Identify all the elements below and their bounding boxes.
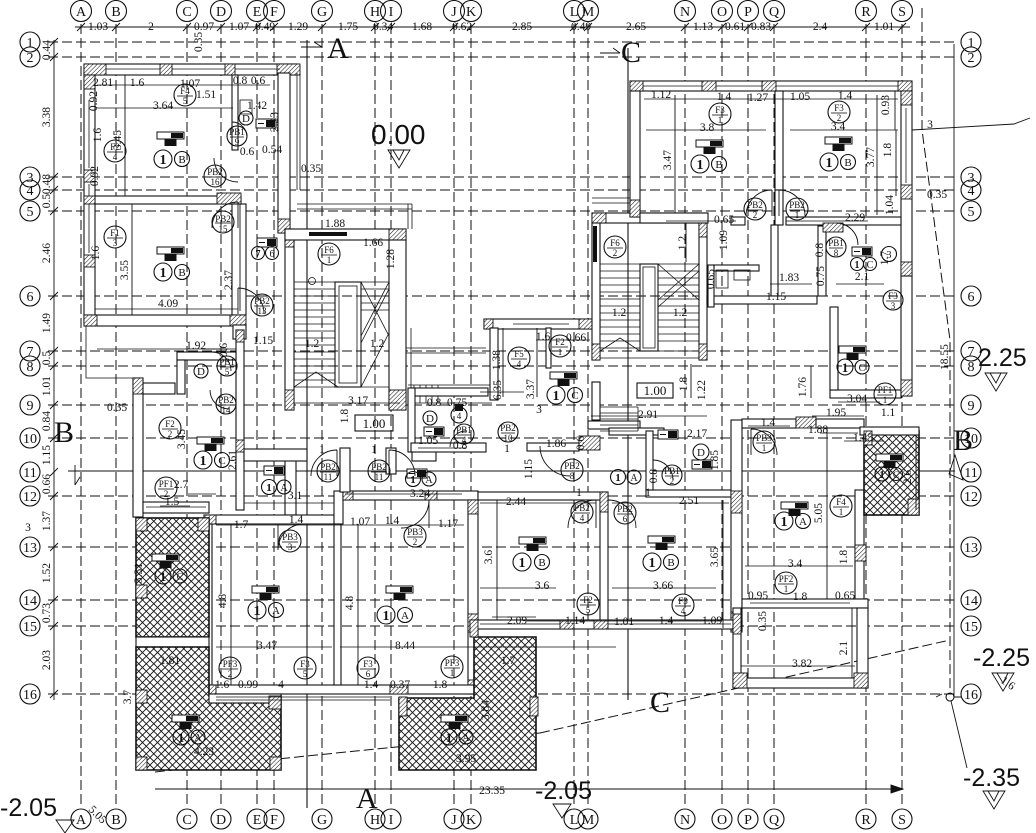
top wall band <box>84 64 297 75</box>
svg-text:3.64: 3.64 <box>153 100 173 112</box>
label circle F4/5 <box>174 84 196 106</box>
bed right block left <box>696 140 723 154</box>
svg-text:13: 13 <box>23 541 37 556</box>
svg-text:1: 1 <box>178 730 185 745</box>
svg-text:1.01: 1.01 <box>874 21 894 33</box>
svg-text:1: 1 <box>446 730 453 745</box>
svg-text:4: 4 <box>27 184 34 199</box>
bed bottom-left left room <box>252 586 279 600</box>
svg-text:2.03: 2.03 <box>41 650 53 670</box>
svg-text:4: 4 <box>278 679 284 691</box>
svg-text:F1: F1 <box>110 228 120 238</box>
room label A B C D E F G H I J K L M N O P Q R S <box>71 1 913 22</box>
svg-text:O: O <box>717 5 727 20</box>
svg-text:1.45: 1.45 <box>853 432 873 444</box>
svg-text:1.2: 1.2 <box>677 236 689 251</box>
svg-text:1.03: 1.03 <box>88 21 108 33</box>
svg-text:1.1: 1.1 <box>881 407 896 419</box>
svg-text:C: C <box>218 455 225 467</box>
svg-text:3.7: 3.7 <box>122 690 134 705</box>
svg-text:3.1: 3.1 <box>288 490 303 502</box>
section A line <box>301 32 378 815</box>
svg-text:1: 1 <box>519 556 526 571</box>
svg-text:2.46: 2.46 <box>41 243 53 263</box>
label circle PB3/2 <box>404 525 426 547</box>
svg-text:2.09: 2.09 <box>507 615 527 627</box>
svg-text:2.1: 2.1 <box>838 641 850 656</box>
bed middle apt <box>550 372 577 386</box>
room label 1 A <box>775 512 811 530</box>
svg-text:1.15: 1.15 <box>523 459 535 479</box>
svg-text:E: E <box>253 813 262 828</box>
label circle PB1/8 <box>826 237 846 258</box>
svg-text:D: D <box>697 447 705 459</box>
bed bottom-middle left <box>519 537 546 551</box>
svg-text:4.23: 4.23 <box>194 746 214 758</box>
svg-text:1: 1 <box>266 482 272 494</box>
svg-text:1.15: 1.15 <box>766 291 786 303</box>
svg-text:3.77: 3.77 <box>865 147 877 167</box>
label circle PB1/5 <box>217 356 237 377</box>
right wall <box>731 420 742 632</box>
left wall <box>630 91 640 217</box>
svg-text:C: C <box>177 572 184 583</box>
svg-text:0.97: 0.97 <box>194 21 214 33</box>
svg-text:2.61: 2.61 <box>227 450 239 470</box>
svg-text:2: 2 <box>228 669 233 679</box>
label circle F6/2 <box>604 236 626 258</box>
svg-text:PB2: PB2 <box>207 167 223 177</box>
svg-text:1.15: 1.15 <box>41 445 53 465</box>
svg-text:0.6: 0.6 <box>240 146 255 158</box>
svg-text:5: 5 <box>968 205 975 220</box>
svg-text:PF3: PF3 <box>223 659 238 669</box>
svg-text:15: 15 <box>219 224 229 234</box>
svg-text:PF1: PF1 <box>159 479 174 489</box>
left wall (terrace shared) <box>204 524 212 694</box>
svg-text:P: P <box>744 813 752 828</box>
boundary dashed right <box>155 8 950 772</box>
svg-text:B: B <box>178 267 185 279</box>
bottom wall of top-left apartment <box>84 315 245 326</box>
window lines below bottom-left apartment wall <box>216 696 390 698</box>
svg-text:1.2: 1.2 <box>305 338 320 350</box>
svg-text:0.54: 0.54 <box>262 144 282 156</box>
svg-text:PB2: PB2 <box>500 423 516 433</box>
bed PF1 room <box>197 437 224 451</box>
svg-text:11: 11 <box>23 466 36 481</box>
svg-text:A: A <box>194 733 202 744</box>
svg-text:F3: F3 <box>888 291 898 301</box>
svg-text:0.35: 0.35 <box>301 163 321 175</box>
svg-text:3.4: 3.4 <box>788 558 803 570</box>
label circle F3/1 <box>709 103 731 125</box>
svg-text:S: S <box>898 5 906 20</box>
bed terrace A <box>152 554 179 568</box>
svg-text:0.6: 0.6 <box>575 436 587 451</box>
section C line <box>600 36 670 719</box>
svg-text:L: L <box>570 5 579 20</box>
left wall band <box>84 75 95 321</box>
svg-text:B: B <box>178 154 185 166</box>
svg-text:13: 13 <box>258 306 268 316</box>
corridor right wall of left block lower <box>236 330 244 510</box>
svg-text:1.00: 1.00 <box>644 383 667 398</box>
svg-text:4: 4 <box>113 152 118 162</box>
svg-text:2: 2 <box>613 248 618 258</box>
svg-text:1: 1 <box>795 210 800 220</box>
label circle PB1/2 <box>662 465 682 486</box>
svg-text:2: 2 <box>27 51 34 66</box>
label circle F5/4 <box>508 347 530 369</box>
room label 7 6 <box>252 247 279 261</box>
bed F4 room <box>781 502 808 516</box>
svg-text:C: C <box>182 5 191 20</box>
svg-text:PB1: PB1 <box>828 238 844 248</box>
PB1/8 door <box>836 223 858 245</box>
svg-text:-2.35: -2.35 <box>963 764 1020 792</box>
svg-text:2: 2 <box>148 21 154 33</box>
svg-text:2.25: 2.25 <box>978 344 1027 372</box>
svg-text:1: 1 <box>649 556 656 571</box>
left wall <box>592 223 600 360</box>
svg-text:2.6: 2.6 <box>902 470 914 485</box>
svg-text:1.83: 1.83 <box>779 272 799 284</box>
right wall of left block <box>278 73 290 233</box>
svg-text:F: F <box>270 5 278 20</box>
svg-text:0.99: 0.99 <box>238 679 258 691</box>
svg-text:16: 16 <box>211 177 221 187</box>
bottom landing V <box>294 372 338 387</box>
svg-text:4.8: 4.8 <box>217 594 229 609</box>
svg-text:3.55: 3.55 <box>119 260 131 280</box>
svg-text:L: L <box>570 813 579 828</box>
svg-text:1.07: 1.07 <box>229 21 249 33</box>
svg-text:6.35: 6.35 <box>492 380 504 400</box>
svg-text:1.15: 1.15 <box>253 335 273 347</box>
svg-text:0.61: 0.61 <box>725 21 745 33</box>
svg-text:D: D <box>216 813 226 828</box>
left dimension line <box>50 38 58 700</box>
grid vertical dashed lines <box>81 24 902 808</box>
svg-text:0.93: 0.93 <box>880 95 892 115</box>
svg-text:3.38: 3.38 <box>41 107 53 127</box>
label circle F3/5 <box>294 657 316 679</box>
top wall <box>484 319 600 329</box>
bed terrace 2 <box>441 715 468 729</box>
svg-text:F6: F6 <box>324 245 334 255</box>
svg-text:2.51: 2.51 <box>679 495 699 507</box>
svg-text:PB1: PB1 <box>456 425 472 435</box>
svg-text:3.47: 3.47 <box>257 640 277 652</box>
bed bottom-middle right <box>648 536 675 550</box>
svg-text:1.8: 1.8 <box>433 679 448 691</box>
svg-text:F5: F5 <box>514 349 524 359</box>
label circle PB2/4 <box>571 501 593 523</box>
svg-text:1: 1 <box>855 260 860 271</box>
svg-text:F6: F6 <box>610 238 620 248</box>
svg-text:7: 7 <box>256 249 261 260</box>
wall y396 under 1C room <box>830 390 901 398</box>
svg-text:1.17: 1.17 <box>438 518 458 530</box>
svg-text:7: 7 <box>968 345 975 360</box>
svg-text:14: 14 <box>222 405 232 415</box>
svg-text:PB3: PB3 <box>282 532 298 542</box>
bottom wall + entrance steps below <box>592 382 600 420</box>
top wall of F4 room <box>742 419 796 428</box>
svg-text:1.66: 1.66 <box>363 237 383 249</box>
vertical wall x781 <box>771 225 778 296</box>
svg-text:PB3: PB3 <box>407 527 423 537</box>
svg-text:3.04: 3.04 <box>847 393 867 405</box>
label circle PB1/9 <box>227 126 247 147</box>
entrance steps right of stair1 <box>408 385 492 403</box>
svg-text:1: 1 <box>842 360 849 375</box>
svg-text:1.8: 1.8 <box>882 143 894 158</box>
svg-text:1.14: 1.14 <box>565 615 585 627</box>
svg-text:3: 3 <box>536 404 542 416</box>
label circle PB2/13 <box>251 294 273 316</box>
svg-text:1.4: 1.4 <box>838 90 853 102</box>
svg-text:8: 8 <box>570 471 575 481</box>
label circle PB2/16 <box>204 165 226 187</box>
svg-text:1.01: 1.01 <box>614 616 634 628</box>
top wall left part <box>204 515 334 524</box>
svg-text:B: B <box>953 424 973 457</box>
left wall <box>490 328 498 400</box>
label circle F2/2 <box>159 417 181 439</box>
svg-text:0.49: 0.49 <box>571 21 591 33</box>
label circle PF3/2 <box>219 657 241 679</box>
svg-text:3: 3 <box>288 542 293 552</box>
svg-text:3.45: 3.45 <box>112 130 124 150</box>
bath fixtures left block <box>240 100 252 114</box>
room label 1 B <box>820 153 856 171</box>
corridor door walls <box>340 448 350 492</box>
svg-text:5: 5 <box>586 605 591 615</box>
label circle PB2/6 <box>614 502 636 524</box>
svg-text:1: 1 <box>839 507 844 517</box>
PB3/1 door F4 <box>751 429 777 455</box>
svg-text:1.49: 1.49 <box>41 313 53 333</box>
room label 1 C <box>194 451 230 469</box>
svg-text:1: 1 <box>615 472 621 484</box>
svg-text:S: S <box>898 813 906 828</box>
room label 1 B <box>691 155 727 173</box>
bed terrace 3 <box>876 454 903 468</box>
label circle PF3/1 <box>441 656 463 678</box>
svg-text:0.75: 0.75 <box>447 397 467 409</box>
svg-text:1.29: 1.29 <box>288 21 308 33</box>
room label 1 A corridor left <box>262 480 292 495</box>
svg-text:M: M <box>582 5 595 20</box>
room label 1 A <box>248 601 284 619</box>
svg-text:A: A <box>425 475 433 486</box>
treads <box>600 264 699 351</box>
svg-text:0.8: 0.8 <box>453 440 468 452</box>
window lines bottom <box>480 623 560 625</box>
boundary small circle near 16 <box>946 693 954 701</box>
svg-text:3.65: 3.65 <box>709 547 721 567</box>
svg-text:1.42: 1.42 <box>247 100 267 112</box>
svg-text:1: 1 <box>200 454 207 469</box>
svg-text:R: R <box>861 5 871 20</box>
svg-text:1.4: 1.4 <box>289 514 304 526</box>
svg-text:-2.05: -2.05 <box>0 794 57 822</box>
svg-text:0.66: 0.66 <box>41 474 53 494</box>
svg-text:0.65: 0.65 <box>714 214 734 226</box>
svg-text:B: B <box>54 416 74 449</box>
label circle PB3/1 <box>753 431 775 453</box>
svg-text:1.05: 1.05 <box>418 435 438 447</box>
bed terrace big <box>172 715 199 729</box>
svg-text:2.1: 2.1 <box>855 271 870 283</box>
svg-text:F: F <box>270 813 278 828</box>
svg-text:1.09: 1.09 <box>718 230 730 250</box>
svg-text:4.8: 4.8 <box>344 596 356 611</box>
svg-text:PB2: PB2 <box>215 214 231 224</box>
svg-text:N: N <box>680 813 690 828</box>
svg-text:1.6: 1.6 <box>92 128 104 143</box>
svg-text:1: 1 <box>576 487 582 499</box>
svg-text:0.44: 0.44 <box>41 40 53 60</box>
porch edge thin lines <box>86 326 133 378</box>
landing dark bar <box>309 232 347 236</box>
right lower wall x901 to terrace <box>901 276 912 396</box>
svg-text:2.4: 2.4 <box>813 21 828 33</box>
label circle PF1/2 <box>155 477 177 499</box>
room label 1 C <box>155 568 187 584</box>
label circle PB2/2 <box>744 198 766 220</box>
svg-text:J: J <box>451 813 457 828</box>
svg-text:1.85: 1.85 <box>709 450 721 470</box>
label circle F3/4 <box>672 594 694 616</box>
svg-text:0.84: 0.84 <box>41 411 53 431</box>
svg-text:3.6: 3.6 <box>535 580 550 592</box>
svg-text:11: 11 <box>375 472 384 482</box>
top wall <box>630 81 912 91</box>
terrace 2 (bottom middle) L-shape <box>399 637 536 770</box>
PB3/3 PB3/2 doors <box>278 524 304 550</box>
room label 1 C <box>837 359 869 375</box>
svg-text:1.8: 1.8 <box>838 550 850 565</box>
small circle marker <box>309 278 316 285</box>
svg-text:F2: F2 <box>555 337 565 347</box>
svg-text:1: 1 <box>27 36 34 51</box>
PB1/5 door <box>212 352 231 371</box>
label circle PB3/3 <box>279 530 301 552</box>
svg-text:D: D <box>197 366 205 378</box>
svg-text:1.27: 1.27 <box>748 92 768 104</box>
svg-text:3: 3 <box>891 301 896 311</box>
svg-text:0.8: 0.8 <box>233 75 248 87</box>
svg-text:6: 6 <box>623 514 628 524</box>
stair right wall <box>389 240 406 410</box>
room door left block <box>212 202 238 228</box>
svg-text:11: 11 <box>324 472 333 482</box>
svg-text:1.8: 1.8 <box>793 591 808 603</box>
svg-text:3.66: 3.66 <box>653 580 673 592</box>
svg-text:1.28: 1.28 <box>385 249 397 269</box>
svg-text:G: G <box>317 5 327 20</box>
svg-text:0.5: 0.5 <box>41 351 53 366</box>
svg-text:3.47: 3.47 <box>662 150 674 170</box>
svg-text:15: 15 <box>964 620 978 635</box>
svg-text:0.65: 0.65 <box>705 269 717 289</box>
svg-text:PB1: PB1 <box>219 357 235 367</box>
svg-text:1.4: 1.4 <box>385 515 400 527</box>
svg-text:H: H <box>370 813 380 828</box>
svg-text:J: J <box>451 5 457 20</box>
svg-text:4.09: 4.09 <box>158 298 178 310</box>
svg-text:A: A <box>76 5 87 20</box>
svg-text:1.00: 1.00 <box>363 416 386 431</box>
svg-text:B: B <box>667 557 674 569</box>
svg-text:F3: F3 <box>678 596 688 606</box>
svg-text:1.4: 1.4 <box>717 91 732 103</box>
svg-text:6: 6 <box>968 290 975 305</box>
room label 1 B <box>513 553 550 571</box>
svg-text:H: H <box>370 5 380 20</box>
svg-text:2.7: 2.7 <box>174 479 189 491</box>
label circle PB2/1 <box>786 198 808 220</box>
grid horizontal dashed lines <box>48 42 958 694</box>
label circle F3/6 <box>357 657 379 679</box>
svg-text:1.04: 1.04 <box>884 195 896 215</box>
svg-text:0.34: 0.34 <box>373 21 393 33</box>
svg-text:4: 4 <box>517 359 522 369</box>
right wall <box>855 490 864 599</box>
left wall of 1C room <box>830 307 838 390</box>
corridor wall under stair1 bottom <box>527 443 579 451</box>
svg-text:1: 1 <box>879 469 885 481</box>
svg-text:8: 8 <box>834 248 839 258</box>
right wall band <box>468 500 478 694</box>
svg-text:C: C <box>893 470 899 480</box>
svg-text:1: 1 <box>160 153 167 168</box>
room label 1 C <box>547 386 583 404</box>
middle wall <box>600 500 608 628</box>
svg-text:12: 12 <box>964 490 978 505</box>
svg-text:10: 10 <box>23 432 37 447</box>
svg-text:3.37: 3.37 <box>525 379 537 399</box>
svg-text:B: B <box>538 557 545 569</box>
label circle PB2/15 <box>212 211 234 234</box>
svg-text:6: 6 <box>27 290 34 305</box>
svg-text:1.38: 1.38 <box>491 350 503 370</box>
bottom wall of PF1 room (window band) <box>143 502 209 513</box>
svg-text:K: K <box>466 5 476 20</box>
svg-text:0.73: 0.73 <box>41 603 53 623</box>
svg-text:0.92: 0.92 <box>88 91 100 111</box>
svg-text:N: N <box>680 5 690 20</box>
svg-text:0.8: 0.8 <box>814 243 826 258</box>
svg-text:0.35: 0.35 <box>107 402 127 414</box>
svg-text:1: 1 <box>762 443 767 453</box>
svg-text:PF3: PF3 <box>445 658 460 668</box>
svg-text:1: 1 <box>781 515 788 530</box>
PB2/14 door <box>210 390 229 409</box>
svg-text:3.8: 3.8 <box>700 122 715 134</box>
svg-text:1.01: 1.01 <box>41 376 53 396</box>
room label 1 A <box>173 729 205 745</box>
label circle F2/1 <box>549 335 571 357</box>
svg-text:G: G <box>317 813 327 828</box>
svg-text:1: 1 <box>319 444 325 456</box>
svg-text:F2: F2 <box>583 595 593 605</box>
room label 1 C <box>875 467 903 481</box>
top wall <box>592 213 707 223</box>
